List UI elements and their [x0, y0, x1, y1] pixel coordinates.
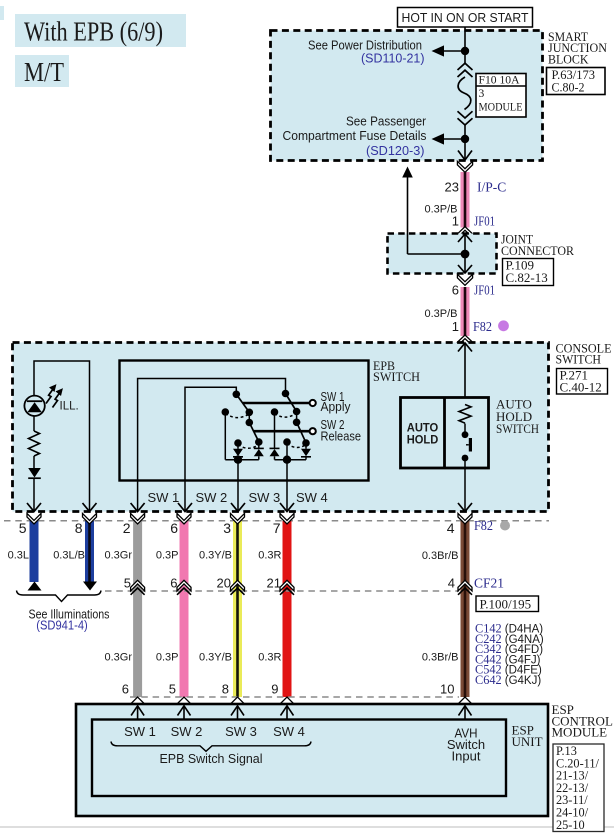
label SMART JUNCTION BLOCK: [548, 29, 608, 66]
svg-text:I/P-C: I/P-C: [477, 180, 506, 195]
joint connector box: [388, 234, 497, 274]
svg-text:With EPB (6/9): With EPB (6/9): [24, 17, 163, 47]
svg-text:5: 5: [124, 576, 131, 591]
mechanical link L1-L2: [238, 445, 259, 449]
resistor (auto hold): [459, 405, 471, 424]
contact C2: [271, 408, 279, 416]
junction SW4 out: [283, 456, 291, 464]
svg-text:0.3P: 0.3P: [156, 550, 179, 562]
note: page edge sliver: [0, 6, 4, 20]
pin numbers at in-line connector: [124, 576, 455, 591]
wire color labels row 1: [8, 550, 459, 563]
wire: joint connector branch left: [408, 253, 466, 255]
wire: SW1 feed: [138, 379, 286, 481]
fuse F10 element: [458, 77, 471, 110]
svg-text:0.3R: 0.3R: [258, 550, 281, 562]
junction: passenger compartment fuse tap: [461, 135, 469, 143]
svg-text:8: 8: [75, 520, 83, 536]
svg-text:HOT IN ON OR START: HOT IN ON OR START: [402, 10, 529, 25]
svg-text:0.3L/B: 0.3L/B: [53, 550, 85, 562]
contact pivot D1: [246, 419, 254, 427]
wire: [33, 456, 35, 468]
contact L2: [255, 438, 263, 446]
connector arrow at console pin 5: [27, 503, 41, 512]
svg-text:See Passenger: See Passenger: [346, 114, 427, 129]
diode DL1 (cathode down): [233, 443, 243, 460]
console switch M: dashed box: [13, 343, 549, 512]
connector face line CF21 row: [105, 590, 459, 592]
wire 0.3Y/B pin 3: [233, 521, 242, 697]
wire: [464, 424, 466, 432]
ESP unit: inner box: [92, 720, 506, 797]
arrow: see power distribution: [432, 45, 445, 56]
wire: SW2 feed: [185, 387, 236, 480]
contact B2: [293, 408, 301, 416]
svg-text:HOLD: HOLD: [407, 433, 439, 447]
svg-text:5: 5: [19, 520, 27, 536]
svg-text:8: 8: [222, 682, 229, 697]
switch lever D1-L2: [249, 423, 258, 442]
wire SW2 to console pin 6: [184, 480, 186, 512]
svg-text:0.3L: 0.3L: [8, 550, 29, 562]
mechanical link R2-R3: [287, 444, 306, 448]
connector chevrons (female) at console pins: [27, 513, 472, 524]
wire: branch to power distribution: [436, 50, 465, 52]
wire C1 down: [224, 412, 226, 460]
connector arrows into ESP unit: [131, 706, 471, 720]
svg-text:SW 2: SW 2: [196, 490, 228, 505]
svg-text:SW 4: SW 4: [296, 490, 328, 505]
wire color labels row 2: [104, 652, 458, 664]
svg-text:SW 3: SW 3: [249, 490, 281, 505]
wire: branch up to SJB: [407, 175, 409, 254]
svg-text:JF01: JF01: [474, 214, 495, 229]
wire R2 down: [286, 442, 288, 460]
svg-text:SW 1: SW 1: [124, 724, 156, 739]
svg-text:3: 3: [479, 87, 485, 100]
svg-text:F82: F82: [473, 319, 492, 334]
svg-text:Apply: Apply: [321, 399, 351, 414]
svg-text:F82: F82: [474, 518, 493, 533]
wire: branch to passenger fuse details: [436, 138, 465, 140]
stub B1-D1: [248, 412, 250, 422]
contact B1: [246, 409, 254, 417]
svg-text:0.3Y/B: 0.3Y/B: [199, 652, 232, 664]
svg-text:P.100/195: P.100/195: [480, 597, 532, 612]
svg-text:1: 1: [452, 319, 459, 334]
switch lever A1-B1: [236, 394, 249, 412]
svg-text:EPB Switch Signal: EPB Switch Signal: [160, 751, 263, 766]
svg-text:7: 7: [273, 520, 281, 536]
label box P.63/173 C.80-2: [547, 67, 606, 95]
svg-text:3: 3: [223, 520, 231, 536]
arrow: see passenger compartment fuse details: [432, 133, 445, 144]
svg-text:25-10: 25-10: [556, 818, 585, 832]
label AUTO HOLD SWITCH: [496, 397, 539, 437]
svg-text:4: 4: [447, 520, 455, 536]
LED ILL.: [24, 396, 44, 431]
connector arrow at joint connector top: [458, 234, 472, 242]
svg-text:0.3Y/B: 0.3Y/B: [199, 550, 232, 562]
contact pivot A1: [233, 391, 241, 399]
svg-text:21: 21: [267, 576, 281, 591]
connector face line below console: [4, 520, 549, 522]
wire 0.3Br/B pin 4: [461, 521, 470, 697]
wire: console entry down to auto hold switch: [464, 343, 466, 398]
wire SW3 exit: [237, 460, 239, 480]
smart junction block U: dashed box: [271, 31, 543, 161]
svg-text:Release: Release: [321, 429, 362, 444]
svg-text:(SD110-21): (SD110-21): [361, 52, 425, 66]
connector color dot (violet): [498, 320, 509, 331]
svg-text:F10 10A: F10 10A: [479, 74, 521, 87]
note: variant label With EPB (6/9): [15, 14, 186, 47]
svg-text:SWITCH: SWITCH: [496, 421, 539, 436]
svg-text:C.82-13: C.82-13: [506, 270, 548, 285]
resistor (illumination): [29, 431, 40, 456]
note: variant label M/T: [15, 55, 69, 87]
svg-text:2: 2: [123, 520, 131, 536]
stub B2-D2: [296, 412, 298, 423]
labels SW 1..SW 4 (ESP): [124, 724, 305, 739]
note: page bottom rule: [0, 826, 614, 828]
svg-text:9: 9: [271, 682, 278, 697]
bus bottom-left: [225, 459, 258, 461]
connector arrows at console pins 2,6,3,7: [131, 503, 145, 512]
contact pivot A2: [282, 390, 290, 398]
svg-text:UNIT: UNIT: [512, 734, 543, 749]
switch lever A2-B2: [286, 394, 297, 412]
svg-text:0.3Gr: 0.3Gr: [104, 652, 132, 664]
arrow from illumination return (down): [83, 582, 97, 591]
terminal SW2: [310, 428, 316, 434]
svg-text:0.3Br/B: 0.3Br/B: [422, 550, 459, 562]
EPB switch box: [120, 361, 369, 481]
fuse F10 terminal chevrons top: [458, 63, 473, 70]
node HOT IN ON OR START: [398, 8, 533, 28]
svg-text:20: 20: [217, 576, 231, 591]
svg-text:C.40-12: C.40-12: [560, 380, 602, 395]
connector arrow at joint connector bottom: [458, 265, 472, 273]
label box P.13 C.20-11/21-13/...: [553, 744, 604, 832]
arrow: branch pointing to SJB: [402, 167, 413, 178]
wire 0.3L/B pin 8: [85, 521, 94, 582]
wire 0.3P pin 6: [180, 521, 189, 697]
wire 0.3Gr pin 2: [133, 521, 142, 697]
wire 0.3R pin 7: [283, 521, 292, 697]
wire 0.3P/B (I/P-C to JF01): [461, 172, 470, 228]
connector chevron: console switch entry: [457, 335, 473, 346]
svg-text:10: 10: [440, 682, 454, 697]
brace: illumination group: [17, 591, 102, 602]
wire to pin 5: [33, 478, 35, 511]
svg-text:ILL.: ILL.: [60, 401, 79, 413]
svg-text:0.3P: 0.3P: [156, 652, 179, 664]
label AUTO HOLD (button face): [407, 421, 439, 447]
arrow to illumination feed (up): [28, 582, 42, 591]
wire C2 down: [274, 412, 276, 449]
svg-text:SW 2: SW 2: [171, 724, 203, 739]
svg-text:C.80-2: C.80-2: [552, 80, 585, 95]
wire SW3 to console pin 3: [237, 480, 239, 512]
LED light arrows: [46, 386, 62, 408]
contact L1: [234, 439, 242, 447]
wire: fuse to passenger fuse tap: [464, 125, 466, 139]
connector arrow at console pin 4: [458, 503, 472, 512]
svg-text:(SD941-4): (SD941-4): [36, 619, 88, 633]
svg-text:CF21: CF21: [474, 576, 504, 591]
svg-text:SW 4: SW 4: [273, 724, 305, 739]
terminal SW1: [310, 400, 316, 406]
mechanical link C2-B2: [275, 413, 297, 417]
connector color dot (gray): [500, 521, 510, 531]
contact C1: [222, 408, 230, 416]
svg-text:0.3R: 0.3R: [258, 652, 281, 664]
SW1 apply bus: [243, 402, 309, 405]
connector chevron: joint connector entry: [457, 227, 473, 238]
ESP control module: outer box: [76, 704, 548, 816]
connector chevron: SJB exit (male): [457, 161, 472, 172]
svg-text:JF01: JF01: [474, 283, 495, 298]
svg-text:(SD120-3): (SD120-3): [366, 144, 425, 158]
svg-text:CONNECTOR: CONNECTOR: [501, 243, 574, 258]
connector face line at ESP: [130, 696, 459, 698]
pin numbers at console bottom: [19, 520, 455, 536]
svg-text:BLOCK: BLOCK: [548, 51, 589, 66]
wire: into fuse: [464, 51, 466, 64]
wire 0.3P/B (JF01 to F82): [461, 287, 470, 336]
svg-text:1: 1: [452, 214, 459, 229]
label AVH Switch Input: [447, 726, 485, 764]
connector list C142..C642: [475, 622, 544, 688]
connector arrow at SJB bottom: [458, 151, 472, 161]
bus bottom-right: [275, 459, 307, 461]
mechanical link C1-B1: [225, 414, 249, 418]
pushbutton contact (auto hold): [462, 431, 471, 461]
svg-text:Input: Input: [452, 749, 481, 764]
svg-text:MODULE: MODULE: [552, 725, 608, 740]
auto hold switch S2: box: [401, 398, 489, 469]
svg-text:6: 6: [122, 682, 129, 697]
svg-text:6: 6: [170, 520, 178, 536]
label box F10 10A / 3 MODULE: [476, 74, 526, 118]
wire: auto hold to console pin 4: [464, 458, 466, 512]
svg-text:MODULE: MODULE: [479, 101, 523, 114]
wire through joint connector: [464, 234, 466, 273]
svg-text:Compartment Fuse Details: Compartment Fuse Details: [283, 128, 427, 143]
diode DR2 (cathode down): [301, 443, 311, 460]
wire: illumination branch (pin 5 to pin 8): [34, 361, 90, 512]
junction: power distribution tap: [461, 47, 469, 55]
wire SW4 exit: [286, 460, 288, 480]
wire 0.3L pin 5: [30, 521, 39, 582]
SW2 release bus: [254, 430, 309, 433]
switch lever D2-R3: [297, 422, 306, 443]
brace: EPB switch signal group: [111, 742, 311, 752]
wire SW4 to console pin 7: [286, 480, 288, 512]
label box P.271 C.40-12: [557, 368, 608, 395]
fuse F10 terminal chevrons bottom: [458, 111, 473, 118]
diode (illumination): [28, 468, 41, 478]
label box P.109 C.82-13: [503, 258, 554, 286]
contact pivot D2: [293, 419, 301, 427]
svg-text:0.3Gr: 0.3Gr: [104, 550, 132, 562]
connector arrow at console entry pin 1: [458, 343, 472, 352]
svg-text:4: 4: [448, 576, 455, 591]
svg-text:SWITCH: SWITCH: [556, 352, 602, 367]
svg-text:0.3Br/B: 0.3Br/B: [422, 652, 459, 664]
wire SW1 to console pin 2: [137, 480, 139, 512]
label ESP CONTROL MODULE: [552, 702, 613, 740]
junction SW3 out: [234, 456, 242, 464]
svg-text:C642 (G4KJ): C642 (G4KJ): [475, 673, 541, 687]
connector arrow at console pin 8: [83, 503, 97, 512]
diode DR1 (cathode up): [270, 448, 280, 459]
label box P.100/195: [476, 596, 539, 612]
contact R3: [302, 439, 310, 447]
connector chevrons at ESP entry: [131, 697, 472, 704]
svg-text:5: 5: [169, 682, 176, 697]
in-line connector chevrons: [131, 580, 472, 595]
wire: feed from HOT box into SJB: [464, 27, 466, 51]
junction inside joint connector: [461, 250, 470, 259]
wire: SJB exit: [464, 139, 466, 160]
diode DL2 (cathode up): [254, 442, 264, 460]
svg-text:23: 23: [445, 180, 459, 195]
svg-text:SW 3: SW 3: [225, 724, 257, 739]
svg-text:6: 6: [452, 283, 459, 298]
svg-text:See Power Distribution: See Power Distribution: [308, 38, 422, 53]
svg-text:SWITCH: SWITCH: [373, 369, 420, 384]
svg-text:M/T: M/T: [24, 57, 64, 87]
svg-text:SW 1: SW 1: [148, 490, 180, 505]
pin numbers at ESP entry: [122, 682, 455, 697]
connector chevron: joint connector exit (male): [457, 274, 472, 285]
svg-text:6: 6: [170, 576, 177, 591]
contact R2: [283, 438, 291, 446]
